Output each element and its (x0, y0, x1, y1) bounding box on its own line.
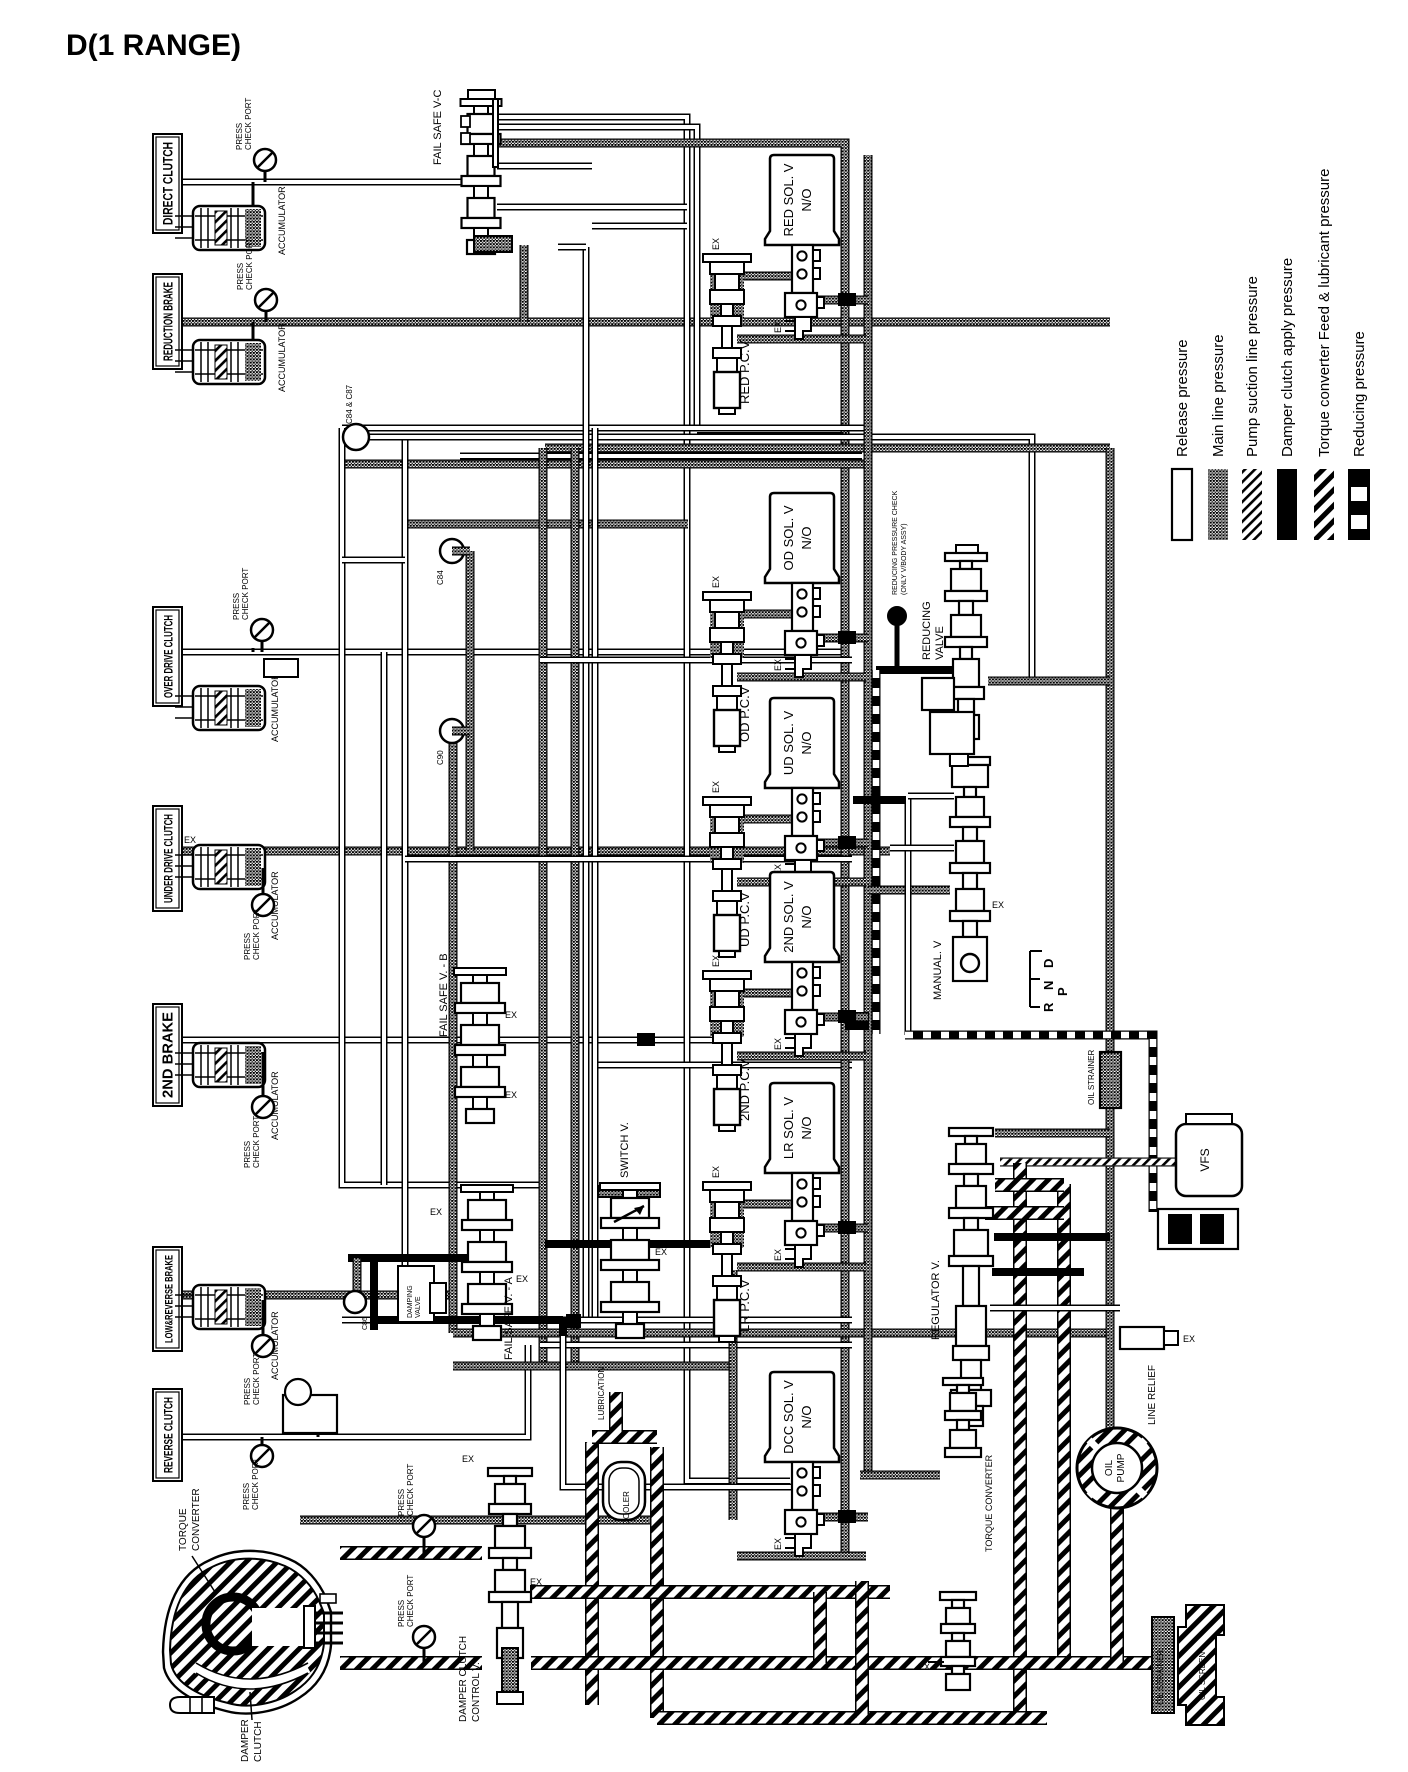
svg-text:Reducing pressure: Reducing pressure (1351, 331, 1368, 457)
wire reducing valve right stipple (988, 677, 1110, 686)
wire thin bottom y1320 (342, 1317, 852, 1324)
svg-text:Damper clutch apply pressure: Damper clutch apply pressure (1279, 258, 1296, 457)
shift indicator R N D P (1029, 951, 1031, 1007)
solenoid DCC SOL V (815, 1513, 868, 1522)
svg-text:PRESS: PRESS (243, 1378, 252, 1405)
check port underdrive (262, 868, 265, 905)
svg-text:OIL: OIL (1104, 1460, 1115, 1477)
svg-text:RED P.C.V: RED P.C.V (737, 340, 752, 404)
valve tc lower spool (940, 1592, 976, 1600)
svg-text:MANUAL. V: MANUAL. V (932, 940, 944, 1000)
wire left box vertical thin (342, 428, 540, 1185)
solenoid RED SOL V (740, 272, 793, 281)
VFS valve (1176, 1124, 1242, 1196)
solenoid 2ND SOL V (740, 989, 793, 998)
wire reverse clutch line (168, 1345, 528, 1437)
check port reverse (261, 1437, 264, 1456)
wire cooler loop right (650, 1447, 664, 1718)
svg-text:LUBRICATION: LUBRICATION (597, 1367, 606, 1420)
svg-text:D(1 RANGE): D(1 RANGE) (66, 29, 241, 62)
wire hatch vertical x820 (813, 1592, 827, 1663)
label OVER DRIVE CLUTCH (153, 607, 182, 706)
svg-text:PRESS: PRESS (232, 593, 241, 620)
wire bottom hatch y1718 (657, 1711, 1047, 1725)
wire thin y1345 (540, 1342, 852, 1349)
wire bundle stipple A (545, 444, 1110, 453)
svg-text:LR P.C.V: LR P.C.V (737, 1279, 752, 1332)
svg-text:OIL STRAINER: OIL STRAINER (1156, 1650, 1165, 1705)
svg-text:DIRECT CLUTCH: DIRECT CLUTCH (160, 142, 176, 225)
svg-text:UD SOL. V: UD SOL. V (781, 711, 796, 776)
svg-text:EX: EX (773, 1038, 783, 1050)
svg-text:REGULATOR V.: REGULATOR V. (930, 1260, 942, 1340)
svg-text:EX: EX (184, 835, 196, 845)
legend item Pump suction line pressure (1242, 469, 1262, 540)
svg-text:N/O: N/O (799, 905, 814, 928)
reverse ball valve (317, 1410, 320, 1437)
oil strainer bottom blocks (1152, 1617, 1174, 1713)
valve regulator V (949, 1128, 993, 1136)
circle C84 C87 (356, 434, 545, 441)
svg-text:EX: EX (505, 1090, 517, 1100)
svg-text:OVER DRIVE CLUTCH: OVER DRIVE CLUTCH (162, 615, 176, 698)
svg-text:EX: EX (530, 1577, 542, 1587)
svg-text:C86: C86 (362, 1317, 369, 1330)
svg-text:N/O: N/O (799, 188, 814, 211)
wire C84 drop stipple (466, 551, 475, 851)
damper clutch control valve (488, 1468, 532, 1476)
svg-text:C90: C90 (436, 750, 445, 765)
wire stipple y1133 (995, 1129, 1110, 1138)
valve manual V (950, 757, 990, 765)
check port tc top (423, 1526, 426, 1553)
wire 2nd brake line (168, 1037, 724, 1044)
svg-text:FAIL SAFE V. - A: FAIL SAFE V. - A (503, 1276, 515, 1360)
solenoid LR SOL V (740, 1200, 793, 1209)
solenoid UD SOL V (740, 815, 793, 824)
wire regulator hatch horiz A (995, 1178, 1064, 1192)
svg-text:TORQUE CONVERTER: TORQUE CONVERTER (984, 1454, 994, 1552)
wire pump down hatch (1110, 1505, 1124, 1663)
svg-text:EX: EX (505, 1010, 517, 1020)
svg-text:N: N (1041, 981, 1056, 990)
wire black L&R region (348, 1254, 470, 1262)
check port low reverse (262, 1300, 265, 1346)
oil strainer top (1100, 1052, 1121, 1108)
wire black switch to LR (545, 1240, 714, 1248)
wire stipple y1366 (453, 1362, 733, 1371)
svg-text:CHECK PORT: CHECK PORT (245, 238, 254, 290)
svg-text:PRESS: PRESS (242, 1483, 251, 1510)
svg-text:VFS: VFS (1198, 1148, 1212, 1171)
svg-text:CHECK PORT: CHECK PORT (252, 1116, 261, 1168)
valve reducing valve (956, 545, 978, 553)
legend item Main line pressure (1208, 469, 1228, 540)
wire manual v stipple feed (868, 886, 950, 895)
wire stipple mid horizontal (405, 520, 688, 529)
svg-text:CHECK PORT: CHECK PORT (252, 908, 261, 960)
label DIRECT CLUTCH (153, 134, 182, 233)
circle C86 on LR line (353, 1258, 362, 1295)
svg-text:EX: EX (711, 238, 721, 250)
wire black reducing output (876, 666, 952, 674)
accumulator reduction brake (175, 349, 199, 351)
wire regulator black y1237 (994, 1233, 1110, 1241)
circle C84 (440, 539, 464, 563)
svg-text:LOW&REVERSE BRAKE: LOW&REVERSE BRAKE (164, 1255, 176, 1343)
svg-text:(ONLY V/BODY ASSY): (ONLY V/BODY ASSY) (901, 523, 908, 595)
junction blob (845, 1012, 869, 1030)
svg-text:OIL STRAINER: OIL STRAINER (1087, 1050, 1096, 1105)
wire fsvc second thin (497, 127, 697, 430)
svg-text:EX: EX (430, 1207, 442, 1217)
VFS solenoid body (1158, 1209, 1238, 1249)
wire cell divider y1065 (592, 1062, 852, 1069)
valve fail safe V-A (461, 1185, 513, 1192)
legend item Damper clutch apply pressure (1277, 469, 1297, 540)
wire fsvc third thin (497, 163, 592, 170)
legend item Release pressure (1172, 469, 1192, 540)
wire left thin vertical 2 (381, 652, 388, 1185)
svg-text:PRESS: PRESS (243, 933, 252, 960)
check port direct clutch (264, 160, 267, 182)
svg-text:DAMPER CLUTCH: DAMPER CLUTCH (458, 1636, 469, 1722)
svg-text:EX: EX (462, 1454, 474, 1464)
wire fsvc drop to reduction line (520, 245, 529, 322)
label LOW&REVERSE BRAKE (153, 1247, 182, 1351)
accumulator direct clutch (175, 215, 199, 217)
wire tc feed bottom (340, 1656, 482, 1670)
wire hatch vertical x862 (855, 1581, 869, 1718)
svg-text:FAIL SAFE V-C: FAIL SAFE V-C (432, 90, 444, 165)
svg-text:DCC SOL. V: DCC SOL. V (781, 1380, 796, 1454)
svg-text:EX: EX (773, 1538, 783, 1550)
svg-text:OD SOL. V: OD SOL. V (781, 505, 796, 570)
svg-text:ACCUMULATOR: ACCUMULATOR (277, 186, 287, 255)
accumulator 2nd brake (175, 1052, 199, 1054)
svg-text:OD P.C.V: OD P.C.V (737, 686, 752, 742)
svg-text:EX: EX (711, 1166, 721, 1178)
svg-text:PUMP: PUMP (1116, 1453, 1127, 1482)
svg-text:EX: EX (711, 955, 721, 967)
valve torque converter control (943, 1378, 983, 1385)
check port tc bottom (423, 1637, 426, 1663)
wire hatch to VFS (1000, 1158, 1176, 1167)
svg-text:CHECK PORT: CHECK PORT (251, 1458, 260, 1510)
svg-text:2ND P.C.V: 2ND P.C.V (737, 1059, 752, 1121)
solenoid OD SOL V (740, 610, 793, 619)
svg-text:CHECK PORT: CHECK PORT (406, 1575, 415, 1627)
svg-text:P: P (1055, 987, 1070, 996)
wire regulator black y1272 (992, 1268, 1084, 1276)
svg-text:UD P.C.V: UD P.C.V (737, 892, 752, 947)
svg-text:EX: EX (918, 1662, 930, 1672)
svg-text:TORQUE: TORQUE (178, 1508, 189, 1551)
accumulator low reverse (175, 1294, 199, 1296)
wire stipple vertical x575 (571, 448, 580, 1366)
wire tc feed top (340, 1546, 482, 1560)
svg-text:DAMPER: DAMPER (240, 1719, 251, 1762)
wire thin y560 top (342, 557, 405, 564)
wire regulator hatch horiz B (985, 1206, 1064, 1220)
reducing valve lower body (922, 678, 954, 710)
svg-text:CONVERTER: CONVERTER (191, 1488, 202, 1551)
wire stipple y1333 (453, 1329, 1110, 1338)
check port 2nd brake (262, 1052, 265, 1107)
svg-text:EX: EX (655, 1247, 667, 1257)
svg-text:PRESS: PRESS (243, 1141, 252, 1168)
svg-text:EX: EX (711, 576, 721, 588)
label UNDER DRIVE CLUTCH (153, 806, 182, 911)
svg-text:OIL SCREEN: OIL SCREEN (1198, 1652, 1207, 1700)
wire thin y859 (405, 856, 852, 863)
circle C90 (440, 719, 464, 743)
torque converter blob (163, 1551, 331, 1714)
wire low reverse line (168, 1291, 455, 1300)
svg-text:VALVE: VALVE (934, 626, 946, 660)
accumulator underdrive (175, 854, 199, 856)
svg-text:RED SOL. V: RED SOL. V (781, 163, 796, 236)
svg-text:EX: EX (773, 1249, 783, 1261)
wire thin vertical x586 (583, 247, 590, 1320)
svg-text:N/O: N/O (799, 1405, 814, 1428)
svg-text:REDUCING PRESSURE CHECK: REDUCING PRESSURE CHECK (892, 490, 899, 595)
svg-text:N/O: N/O (799, 731, 814, 754)
svg-text:D: D (1041, 959, 1056, 968)
svg-text:CHECK PORT: CHECK PORT (252, 1353, 261, 1405)
wire bundle stipple B (342, 460, 868, 469)
svg-text:2ND BRAKE: 2ND BRAKE (160, 1012, 177, 1098)
wire regulator hatch vertical A (1013, 1163, 1027, 1718)
wire reducing dashed horizontal (905, 1035, 1153, 1212)
svg-text:EX: EX (516, 1274, 528, 1284)
wire black y800 (853, 796, 906, 804)
svg-text:REDUCING: REDUCING (921, 601, 933, 660)
svg-text:EX: EX (773, 659, 783, 671)
wire thin y660 (540, 657, 852, 664)
svg-text:PRESS: PRESS (397, 1600, 406, 1627)
wire left thin vertical 3 (402, 437, 409, 1320)
wire underdrive main line (168, 847, 890, 856)
cooler (603, 1462, 645, 1520)
svg-text:CHECK PORT: CHECK PORT (244, 98, 253, 150)
label 2ND BRAKE (153, 1004, 182, 1106)
wire stipple y1520 (300, 1516, 657, 1525)
damping valve (398, 1266, 434, 1322)
svg-text:UNDER DRIVE CLUTCH: UNDER DRIVE CLUTCH (162, 814, 176, 903)
wire cooler loop (585, 1442, 599, 1705)
svg-text:EX: EX (992, 900, 1004, 910)
wire reducing dashed vertical (872, 670, 881, 1034)
wire hatch y1592 (530, 1585, 890, 1599)
svg-text:REVERSE CLUTCH: REVERSE CLUTCH (162, 1397, 176, 1473)
svg-text:FAIL SAFE V. - B: FAIL SAFE V. - B (438, 953, 450, 1037)
svg-text:Release pressure: Release pressure (1174, 339, 1191, 457)
label REVERSE CLUTCH (153, 1389, 182, 1481)
wire reduction brake main line (168, 318, 1110, 327)
wire C90 drop stipple (449, 731, 458, 1333)
wire fsvc top thin (497, 117, 790, 1481)
label REDUCTION BRAKE (153, 274, 182, 369)
svg-text:N/O: N/O (799, 526, 814, 549)
valve fail safe V-B (454, 968, 506, 975)
wire stipple tc y1447 (860, 1471, 940, 1480)
svg-text:COOLER: COOLER (622, 1491, 631, 1525)
wire stipple vertical x543 (539, 448, 548, 1366)
svg-text:CHECK PORT: CHECK PORT (241, 568, 250, 620)
svg-text:LINE RELIEF: LINE RELIEF (1147, 1365, 1158, 1425)
svg-text:CONTROL V.: CONTROL V. (471, 1662, 482, 1722)
line relief valve (1120, 1327, 1164, 1349)
svg-text:R: R (1041, 1002, 1056, 1012)
svg-text:Main line pressure: Main line pressure (1210, 334, 1227, 457)
svg-text:EX: EX (711, 781, 721, 793)
wire manual cell thin borders (905, 796, 912, 1035)
wire hatch y1663 long (531, 1656, 1152, 1670)
wire overdrive clutch line (168, 649, 848, 656)
svg-text:DAMPING: DAMPING (407, 1285, 414, 1318)
junction blob x573 y1320 (566, 1314, 581, 1328)
svg-text:2ND SOL. V: 2ND SOL. V (781, 881, 796, 953)
svg-text:PRESS: PRESS (236, 263, 245, 290)
wire red cell top border (592, 223, 687, 230)
legend item Reducing pressure (1348, 469, 1370, 540)
wire red cell bottom border (697, 427, 845, 434)
wire bundle thin B (405, 437, 1032, 681)
overdrive small box (264, 659, 298, 677)
wire fsvc fourth thin (497, 204, 687, 211)
svg-text:C84 & C87: C84 & C87 (345, 384, 354, 424)
svg-text:VALVE: VALVE (415, 1296, 422, 1318)
svg-text:PRESS: PRESS (397, 1489, 406, 1516)
legend item Torque converter Feed &amp; lubricant pressure (1314, 469, 1334, 540)
svg-text:ACCUMULATOR: ACCUMULATOR (270, 673, 280, 742)
svg-text:SWITCH V.: SWITCH V. (619, 1122, 631, 1178)
svg-text:N/O: N/O (799, 1116, 814, 1139)
wire fsvc stipple to red sol (497, 143, 845, 1560)
wire bundle thin A (342, 425, 868, 432)
svg-text:C84: C84 (436, 570, 445, 585)
svg-text:REDUCTION BRAKE: REDUCTION BRAKE (161, 282, 176, 361)
svg-text:Pump suction line pressure: Pump suction line pressure (1244, 276, 1261, 457)
svg-text:EX: EX (773, 321, 783, 333)
svg-text:LR SOL. V: LR SOL. V (781, 1097, 796, 1159)
svg-text:Torque converter Feed & lubric: Torque converter Feed & lubricant pressu… (1316, 169, 1333, 457)
svg-text:PRESS: PRESS (235, 123, 244, 150)
wire right main stipple vertical x1110 (1106, 448, 1115, 1432)
wire direct clutch line (168, 179, 468, 186)
wire thin vertical x595 (592, 428, 599, 1320)
wire regulator thin y1308 (990, 1305, 1120, 1312)
svg-text:ACCUMULATOR: ACCUMULATOR (277, 323, 287, 392)
svg-text:EX: EX (1183, 1334, 1195, 1344)
check port overdrive (261, 630, 264, 652)
oil pump (1077, 1428, 1157, 1508)
lubrication outlet (609, 1392, 623, 1434)
svg-text:CLUTCH: CLUTCH (253, 1721, 264, 1762)
check port reduction brake (265, 300, 268, 322)
accumulator overdrive (175, 695, 199, 697)
svg-text:CHECK PORT: CHECK PORT (406, 1464, 415, 1516)
wire bundle thin C (460, 453, 862, 460)
reducing pressure check dot (888, 607, 906, 625)
wire regulator hatch vertical B (1057, 1184, 1071, 1663)
wire stipple vertical x868 (864, 155, 873, 1475)
